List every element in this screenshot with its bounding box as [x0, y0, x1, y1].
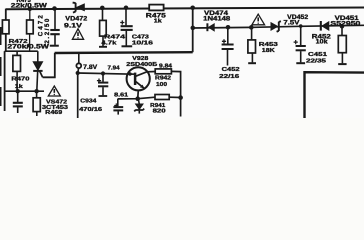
node base wire blob — [128, 72, 131, 75]
svg-text:R469: R469 — [45, 110, 63, 116]
transistor V928 emitter with arrow — [136, 82, 144, 99]
svg-text:7.94: 7.94 — [108, 65, 120, 71]
zener diode VD941 (below emitter node) — [134, 99, 144, 114]
node right vertical junction — [178, 95, 183, 100]
node R472 lead blob — [27, 44, 31, 48]
svg-text:22/35: 22/35 — [306, 59, 327, 65]
transistor V928 collector — [136, 72, 156, 77]
wire left vertical — [5, 9, 6, 111]
capacitor C937 (bottom left) — [13, 91, 23, 113]
wire top rail — [6, 8, 364, 10]
svg-text:C934: C934 — [80, 99, 97, 105]
wire B (right horizontal) — [193, 25, 364, 28]
test point 7.8V — [76, 52, 81, 73]
big box bottom right — [305, 72, 364, 118]
transistor V928 base bar — [134, 73, 137, 85]
node emitter junction — [135, 96, 140, 101]
wire R941 to right vertical — [169, 96, 180, 98]
node rail-mid vertical junction — [190, 6, 195, 11]
transistor V928 circle — [127, 67, 150, 90]
warning triangle near VD472 — [72, 29, 83, 40]
svg-text:4.7k: 4.7k — [101, 40, 117, 46]
svg-text:1k: 1k — [154, 19, 163, 25]
resistor R470 — [13, 51, 21, 91]
svg-text:10/16: 10/16 — [132, 40, 154, 46]
resistor R452 — [338, 26, 346, 64]
wire mid vertical x193 — [192, 8, 194, 52]
svg-text:470/16: 470/16 — [79, 107, 103, 113]
svg-text:18K: 18K — [262, 48, 276, 54]
svg-text:2SD400Б: 2SD400Б — [126, 62, 157, 68]
wire bus left corner down — [43, 53, 55, 77]
resistor R473 box (left, 22k 0.5W) — [2, 20, 9, 34]
scan edge artifact 3 — [0, 87, 2, 106]
wire y91 (bottom left horizontal) — [5, 90, 44, 92]
polarity plus of C936 — [114, 103, 118, 107]
capacitor C472 — [50, 9, 60, 46]
svg-text:7.5V: 7.5V — [283, 20, 299, 26]
capacitor C451 — [296, 26, 306, 63]
bus wire (middle horizontal thick) — [55, 51, 193, 54]
resistor R475 on rail — [149, 5, 163, 11]
node 7.8V junction — [76, 71, 80, 75]
capacitor C473 — [121, 8, 133, 47]
diode VD474 — [207, 23, 214, 31]
zener diode VD472 on rail — [73, 3, 85, 13]
node mid vertical / wire B junction — [191, 26, 196, 31]
node rail-C473 junction — [124, 6, 129, 11]
resistor R941 — [155, 95, 169, 100]
svg-text:1N4148: 1N4148 — [203, 17, 231, 23]
polarity plus of C451 — [294, 40, 298, 44]
wire y53 (left horizontal) — [5, 50, 38, 52]
zener diode VD452 — [271, 21, 281, 32]
polarity plus of C934 — [97, 79, 101, 83]
scan edge artifact 1 — [0, 27, 2, 45]
resistor R474 — [99, 8, 107, 47]
warning triangle near VS472 — [48, 86, 60, 96]
node rail-R472 junction — [28, 7, 33, 12]
node C934 junction — [101, 71, 105, 75]
resistor R453 — [248, 27, 256, 63]
svg-text:R470: R470 — [11, 77, 29, 83]
node wireB-C451 junction — [299, 24, 303, 28]
svg-text:R942: R942 — [155, 76, 171, 82]
wire base (7.8V node to transistor base) — [78, 73, 135, 74]
svg-text:10k: 10k — [316, 40, 329, 46]
diode VD451 — [321, 21, 329, 31]
resistor R942 — [155, 69, 171, 74]
node wire91-R469 junction — [34, 89, 38, 93]
polarity plus of C452 — [222, 39, 226, 43]
wire R942 to right vertical — [171, 71, 180, 116]
svg-text:270k/0.5W: 270k/0.5W — [7, 45, 49, 51]
wire emitter row — [118, 97, 155, 99]
node wire91-cap junction — [16, 89, 20, 93]
node rail-C472 junction — [52, 6, 57, 11]
capacitor C452 — [222, 27, 234, 65]
svg-text:9.1V: 9.1V — [64, 24, 82, 30]
capacitor C934 — [98, 74, 108, 97]
node wireB-R453 junction — [249, 25, 254, 30]
resistor R469 box — [33, 91, 40, 116]
svg-text:22k/0.5W: 22k/0.5W — [11, 3, 47, 10]
thyristor VS471 — [33, 51, 42, 91]
wire thyristor gate slant — [40, 71, 43, 77]
node wireB-R452 junction — [340, 24, 345, 29]
node wireB-C452 junction — [226, 25, 231, 30]
wire 7.8V node down to bottom edge — [77, 72, 79, 118]
polarity plus of C473 — [120, 20, 124, 24]
svg-text:C452: C452 — [222, 67, 240, 73]
svg-text:100: 100 — [156, 82, 167, 88]
svg-text:7.8V: 7.8V — [83, 65, 97, 71]
svg-text:9.84: 9.84 — [159, 63, 172, 69]
svg-text:S52950: S52950 — [330, 22, 361, 28]
warning triangle near VD452 — [252, 14, 265, 25]
svg-text:820: 820 — [153, 109, 166, 115]
node rail-R474 junction — [100, 6, 105, 11]
svg-text:8.61: 8.61 — [114, 93, 128, 99]
capacitor C936 (below emitter row) — [113, 99, 123, 115]
svg-text:22/16: 22/16 — [219, 74, 240, 80]
svg-text:C451: C451 — [308, 52, 328, 58]
svg-text:1k: 1k — [15, 84, 24, 90]
scan edge artifact 2 — [0, 57, 2, 76]
svg-text:VD472: VD472 — [65, 16, 88, 22]
resistor R472 box (270k 0.5W) — [27, 9, 34, 51]
